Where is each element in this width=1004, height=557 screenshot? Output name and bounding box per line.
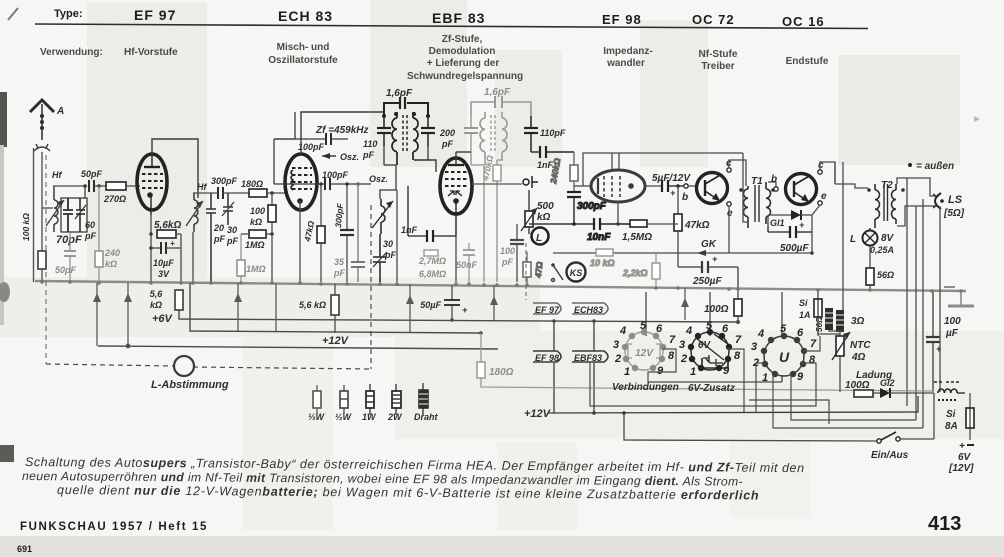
resistor 100 Ohm Ladung [845,380,873,397]
heater symbol EF98 [533,351,561,363]
diode Gl1 [768,210,812,228]
T2 secondary [891,184,896,224]
svg-text:50pF: 50pF [81,169,103,179]
60pF label [84,220,96,241]
svg-text:pF: pF [333,268,345,278]
svg-text:2W: 2W [387,412,403,422]
svg-text:4: 4 [619,325,626,337]
cap 50nF gray [456,243,478,282]
svg-text:56Ω: 56Ω [815,316,824,332]
svg-text:+12V: +12V [524,408,552,420]
header rule [35,24,868,29]
wire OC16 collector up right [820,162,835,184]
resistor 56 Ohm dark pair [815,308,844,332]
wire emitter node down [811,215,813,253]
wire antenna down [41,152,43,251]
svg-text:2: 2 [680,353,687,365]
battery terminal [948,441,974,474]
resistor 100kOhm antenna [21,213,46,282]
svg-text:300pF: 300pF [577,201,607,212]
junction dots bus left [40,280,183,285]
EF98 out wire [645,185,662,187]
svg-text:50nF: 50nF [456,260,478,270]
wire bypass node down [180,234,182,282]
svg-text:T1: T1 [751,176,763,187]
heater wires down [554,321,594,413]
resistor 56 Ohm [866,246,894,290]
svg-text:Oszillatorstufe: Oszillatorstufe [268,55,338,66]
wire ant branch x33 [33,148,35,282]
cap dark plates mid [510,224,524,282]
svg-text:b: b [771,174,777,185]
svg-text:OC 16: OC 16 [782,14,825,29]
svg-text:+: + [712,254,718,264]
wire y193 [193,192,218,194]
svg-text:ECH 83: ECH 83 [278,8,333,24]
svg-text:47kΩ: 47kΩ [684,220,710,231]
ECH83 top wire to IF [301,112,384,154]
transistor OC72 [697,173,728,204]
cap 1nF series [531,146,574,170]
svg-text:5,6kΩ: 5,6kΩ [154,220,181,231]
heater symbol EF97 [533,303,561,315]
svg-text:100: 100 [250,206,265,216]
svg-text:7: 7 [735,334,742,346]
wire cap to resistor [94,185,106,187]
trimmer 30pF [222,193,238,246]
cap 500uF [768,220,812,254]
socket 12V [625,332,663,370]
svg-text:8: 8 [668,350,675,362]
svg-text:+: + [799,220,805,230]
svg-text:100pF: 100pF [298,142,325,152]
+12V rail [98,346,498,349]
+12V bottom rail [524,396,918,420]
svg-text:ECH83: ECH83 [574,305,603,315]
socket 6V pins [688,329,732,371]
svg-text:Treiber: Treiber [701,61,734,72]
cap 20pF [206,193,225,282]
resistor 1,5M [622,220,678,243]
wattage legend Draht [414,383,439,422]
svg-text:kΩ: kΩ [537,212,551,223]
svg-text:9: 9 [797,371,804,383]
svg-text:wandler: wandler [606,58,645,69]
svg-text:200: 200 [439,128,455,138]
svg-text:Gl1: Gl1 [770,218,785,228]
tuning box [61,198,87,232]
cap 100pF osc grid [274,139,371,190]
svg-text:Zf-Stufe,: Zf-Stufe, [442,34,483,45]
svg-text:Nf-Stufe: Nf-Stufe [699,49,738,60]
svg-text:L: L [850,234,856,245]
socket U drop [781,375,783,382]
svg-text:5,6: 5,6 [150,289,164,299]
svg-text:pF: pF [362,150,374,160]
wire T2 sec to LS [897,178,936,196]
resistor 180 Ohm gray heater [477,333,934,391]
svg-text:3V: 3V [158,269,170,279]
EF98 top supply wire [583,153,743,186]
svg-text:OC 72: OC 72 [692,12,735,27]
tube EF98 grids vertical [604,176,620,197]
svg-text:2,2kΩ: 2,2kΩ [622,268,648,278]
svg-text:7: 7 [669,334,676,346]
heater symbol EBF83 [572,351,608,363]
svg-text:Demodulation: Demodulation [429,46,496,57]
svg-text:5: 5 [780,323,787,335]
OC72 emitter [727,202,733,219]
tube EF98 cathode dot [628,183,634,189]
svg-text:6: 6 [797,327,804,339]
coil2 bottom wire [192,232,194,282]
input coil L1 variable [46,186,64,232]
svg-text:pF: pF [441,139,453,149]
svg-text:100pF: 100pF [322,170,349,180]
tube EBF83 diodes [448,191,462,196]
svg-text:+: + [670,188,676,198]
wire IFT1 sec to EBF grid [414,160,436,172]
svg-text:µF: µF [945,328,959,339]
svg-text:= außen: = außen [916,161,954,172]
svg-text:180Ω: 180Ω [241,179,263,189]
svg-text:5µF/12V: 5µF/12V [652,173,691,184]
svg-text:8: 8 [809,354,816,366]
wire emitter down [728,206,730,253]
resistor 5,6k cathode [149,220,181,238]
wire x397 anode osc down [396,190,398,282]
watermark caption bands [243,338,333,530]
svg-text:1: 1 [690,366,696,378]
switch Ein/Aus [622,393,934,461]
svg-text:30: 30 [227,225,237,235]
svg-text:1nF: 1nF [401,225,418,235]
T2 dots [867,188,905,192]
svg-text:EBF83: EBF83 [574,353,602,363]
watermark blotch mid2 [495,50,562,167]
svg-text:e: e [821,191,827,202]
OC16 emitter [818,191,827,205]
socket 12V pins [622,329,666,371]
tube EF97 cathode [147,192,153,215]
lamp L 8V [850,228,895,255]
fuse Si 8A [945,393,974,440]
riser x276 [275,283,277,331]
svg-text:8: 8 [734,350,741,362]
svg-text:[12V]: [12V] [948,463,974,474]
tube EF97 envelope [137,154,167,210]
svg-text:4: 4 [757,328,764,340]
tube ECH83 cathode dot [297,198,303,282]
svg-text:L-Abstimmung: L-Abstimmung [151,379,229,391]
KS circle label [567,263,586,282]
lower tonal band [395,331,1004,439]
ground symbol right [944,287,974,306]
svg-text:10nF: 10nF [587,232,611,243]
svg-text:b: b [682,192,688,203]
GK feedback line [553,239,812,256]
svg-text:10 kΩ: 10 kΩ [590,258,615,268]
IFT1 cap 200pF [421,116,455,149]
cap 50pF series [81,169,103,192]
svg-text:100: 100 [944,316,961,327]
dashed shield antenna [45,155,47,364]
svg-text:12V: 12V [635,348,654,359]
svg-text:A: A [56,106,64,117]
ground bus [35,281,966,291]
tube EF98 envelope [591,170,645,202]
svg-text:1,6pF: 1,6pF [484,87,511,98]
coil Hf2 with core [186,193,203,232]
dashed shield osc [370,205,372,369]
wattage legend 1/3W [308,385,326,422]
EBF cathode down [455,236,457,282]
wire 384 down [383,146,385,165]
IFT1 junction dots [382,112,430,118]
svg-text:Si: Si [946,409,956,420]
svg-text:1A: 1A [799,310,811,320]
cap 1nF grid return [401,186,456,242]
wire to tube grid [126,185,140,187]
antenna A [30,100,54,140]
svg-text:KS: KS [570,268,583,278]
svg-text:kΩ: kΩ [105,259,117,269]
tube EBF83 envelope [440,158,472,214]
socket U [764,336,804,376]
resistor R 5,6k left bottom [150,289,183,310]
T2 primary [875,184,880,228]
bottom scan strip [0,536,1004,557]
fuse Si 1A [799,290,822,336]
svg-text:1: 1 [624,366,630,378]
junction dots right [454,282,963,293]
svg-text:60: 60 [85,220,95,230]
riser with AGC arrow x97 [93,283,101,346]
svg-text:Draht: Draht [414,412,439,422]
watermark blotch right2 [838,55,960,165]
IFT2 bridge cap 1,6pF gray [471,87,531,116]
cap 300pF af [567,192,607,226]
OC72 collector [726,158,732,172]
svg-text:50µF: 50µF [420,300,441,310]
svg-text:110: 110 [363,139,377,149]
svg-text:500µF: 500µF [780,243,809,254]
IFT2 cap left gray [464,116,478,165]
socket nest wires [590,317,923,428]
tube EF98 anode bar [597,178,599,194]
svg-text:100Ω: 100Ω [845,380,870,391]
osz arrow top [322,152,359,162]
IFT1 cap 110pF [362,116,391,160]
socket 12V numbers [613,320,676,378]
battery choke [934,382,965,400]
detector diode tap [523,176,538,188]
svg-text:Zf =459kHz: Zf =459kHz [315,125,369,136]
cap 110pF right [524,116,566,152]
resistor 47k base [674,184,710,267]
svg-text:6V-Zusatz: 6V-Zusatz [688,383,735,394]
svg-text:5,6 kΩ: 5,6 kΩ [299,300,326,310]
svg-text:LS: LS [948,194,963,206]
svg-text:GK: GK [701,239,717,250]
svg-text:Impedanz-: Impedanz- [603,46,652,57]
svg-text:⅓W: ⅓W [308,412,326,422]
svg-text:EF 98: EF 98 [535,353,559,363]
svg-text:1W: 1W [362,412,377,422]
tube EBF83 grids [445,172,467,186]
variable cap 70pF [63,198,73,232]
resistor 47k osc [302,182,325,282]
transistor OC16 [786,174,817,205]
diode Gl2 [873,378,934,398]
tube EBF83 cathode dot [453,198,459,236]
T2 core [884,184,888,221]
svg-text:9: 9 [723,365,730,377]
IFT2 core gray [491,115,495,152]
svg-text:100: 100 [500,246,515,256]
cap 10uF/3V electrolytic [149,239,181,279]
output vertical feeds [646,162,940,428]
svg-text:+: + [936,344,942,354]
L-Abstimmung knob [151,356,229,391]
svg-text:pF: pF [226,236,238,246]
svg-text:50pF: 50pF [55,265,77,275]
label 100pF gray [500,246,515,267]
IFT2 wires gray down [471,160,503,282]
cap 100uF right [926,291,961,392]
T1 top wire [743,153,748,222]
resistor 240k gray vert [548,152,578,192]
IFT1 primary coil [392,112,397,165]
svg-text:300pF: 300pF [211,176,238,186]
svg-text:pF: pF [84,231,96,241]
cap 5uF/12V [652,173,691,198]
svg-text:Gl2: Gl2 [880,378,895,388]
wire T2 prim top [835,184,868,188]
svg-text:L: L [536,233,542,244]
riser with arrow x491 [490,285,498,320]
junction dot 99,186 [97,184,101,188]
cap 300pF series [211,176,238,199]
svg-text:2: 2 [614,353,621,365]
wire grid line y186 [53,185,87,187]
wire IFT1 prim bottom down [395,165,397,190]
wire collector to T1 [729,160,746,186]
svg-text:Hf-Vorstufe: Hf-Vorstufe [124,47,178,58]
cap 10nF series [587,218,630,243]
svg-text:240: 240 [104,248,120,258]
EBF anode top wire [455,152,457,165]
tube ECH83 grids [292,168,312,189]
anode wire top [152,139,198,198]
socket U numbers [751,323,817,384]
svg-text:56Ω: 56Ω [877,270,894,280]
svg-text:+12V: +12V [322,335,350,347]
svg-text:+6V: +6V [152,313,174,325]
svg-text:20: 20 [213,223,224,233]
OC16 base terminal [771,174,778,191]
svg-text:EF 97: EF 97 [134,7,176,23]
left edge smudge [0,92,7,147]
NTC 4 Ohm [832,332,871,392]
svg-text:5: 5 [706,320,713,332]
osc coil top wire [380,190,397,199]
svg-text:110pF: 110pF [540,128,566,138]
svg-text:100Ω: 100Ω [704,304,729,315]
resistor 2,2k gray [622,253,660,288]
cap 100pF osc top [274,133,348,152]
cathode wire down [150,215,152,282]
svg-text:7: 7 [810,338,817,350]
svg-text:2,7MΩ: 2,7MΩ [418,256,446,266]
svg-text:270Ω: 270Ω [103,194,126,204]
tube ECH83 triode coil [291,170,293,190]
EF98 top drops [612,153,619,170]
dashed shield bottom [46,364,174,366]
svg-text:10µF: 10µF [153,258,174,268]
heater symbol ECH83 [572,303,608,315]
svg-text:70pF: 70pF [56,234,82,246]
IFT2 primary coil gray [480,112,485,165]
svg-text:Type:: Type: [54,8,83,20]
svg-text:+: + [959,441,965,452]
cap 300pF osc vertical [333,182,354,282]
resistor 270 Ohm [103,182,126,204]
EF98 grid wire from af [574,185,590,187]
wire box to grid line [83,184,87,198]
svg-text:Hf: Hf [197,182,207,192]
IFT2 secondary gray [502,112,507,160]
svg-text:3: 3 [613,339,619,351]
svg-text:EF 97: EF 97 [535,305,560,315]
socket U pins [761,333,807,377]
svg-text:Verbindungen: Verbindungen [612,382,679,393]
IFT1 bridge cap 1,6pF [384,88,428,116]
T1 primary [743,186,748,228]
resistor 100k vertical [250,191,276,234]
osc coil variable [372,199,393,234]
socket 6V [691,332,729,370]
svg-text:6V: 6V [958,452,972,463]
svg-text:413: 413 [928,513,961,535]
svg-text:691: 691 [17,544,32,554]
svg-text:500: 500 [537,201,554,212]
svg-text:9: 9 [657,365,664,377]
svg-text:4: 4 [685,325,692,337]
watermark blotch right1 [640,20,708,167]
svg-text:+: + [170,239,175,248]
svg-text:1,5MΩ: 1,5MΩ [622,232,652,243]
socket 6V diodes inside [702,355,728,368]
resistor 1M horizontal [241,230,274,282]
IFT2 resistor 470k gray [480,154,501,282]
T1 secondary [766,182,771,224]
trimmer 60pF [75,198,86,232]
svg-text:Osz.: Osz. [340,152,359,162]
svg-text:100 kΩ: 100 kΩ [21,213,31,241]
svg-text:30: 30 [383,239,393,249]
T1 core [755,185,759,222]
riser with AGC arrow x128 [124,283,132,348]
wire antenna to coil [42,207,53,209]
IFT1 core [403,115,407,152]
svg-text:U: U [779,349,790,365]
svg-text:3: 3 [751,341,757,353]
svg-text:+ Lieferung der: + Lieferung der [427,58,500,69]
junction dots mid [191,281,399,286]
resistor 47 Ohm gray vert [523,252,544,285]
antenna plug [34,144,50,151]
